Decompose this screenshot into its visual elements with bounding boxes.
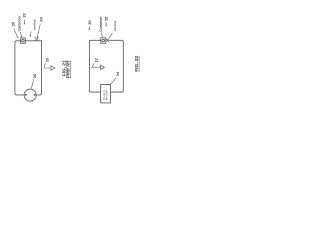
- arrowhead of hot line lead: [30, 35, 31, 37]
- splice X on hot line: [35, 37, 39, 41]
- svg-text:34: 34: [115, 71, 120, 76]
- lead line numeral 12 bend: [92, 63, 100, 67]
- svg-text:10: 10: [44, 58, 49, 62]
- svg-text:FIG. 22: FIG. 22: [134, 55, 140, 71]
- lead line numeral 34 -> module: [111, 78, 117, 85]
- arrowhead of 20 lead: [17, 36, 19, 38]
- load circle M1: [24, 89, 36, 101]
- lead line numeral 24 -> X: [37, 24, 40, 38]
- splice X right of box B2: [106, 39, 109, 42]
- svg-text:Module: Module: [104, 90, 108, 100]
- wire: left vertical conductor: [15, 42, 17, 95]
- switch box B1: [21, 38, 26, 43]
- lead line numeral 20 -> top wire: [14, 29, 18, 37]
- wire: right vertical conductor: [40, 42, 42, 95]
- svg-text:32: 32: [104, 16, 109, 21]
- lead arrow numeral 30 -> corner: [88, 27, 91, 30]
- lamp symbol in box B1: [22, 39, 24, 41]
- arrowhead of 22 lead: [24, 23, 25, 25]
- svg-text:12: 12: [93, 57, 98, 62]
- wire: top hot-line conductor: [15, 41, 42, 43]
- lead arrow numeral 32: [105, 22, 107, 26]
- wire: left vertical conductor: [89, 42, 91, 92]
- open arrowhead of assembly 10: [51, 66, 55, 71]
- switch box B2: [101, 38, 106, 43]
- svg-text:30: 30: [87, 20, 92, 24]
- wire: right vertical conductor: [122, 42, 124, 92]
- terminal dot left of load: [25, 94, 27, 96]
- svg-text:22: 22: [22, 12, 27, 17]
- arrowhead of 30 lead: [89, 29, 91, 31]
- svg-text:hot line: hot line: [113, 20, 117, 31]
- lead line Common -> box: [101, 32, 102, 37]
- open arrowhead of assembly 12: [100, 65, 104, 69]
- svg-text:Common: Common: [17, 16, 21, 31]
- wire: bottom conductor: [16, 94, 40, 96]
- wire: bottom conductor: [91, 91, 122, 93]
- lead line hot line -> wire: [29, 32, 32, 36]
- lead line hot line -> X: [109, 33, 112, 38]
- lead line Common -> box: [20, 32, 21, 36]
- wire: top hot-line conductor: [89, 40, 123, 42]
- FIG. 21 caption: [62, 60, 71, 78]
- svg-text:hot line: hot line: [32, 19, 36, 30]
- arrowhead of 32 lead: [105, 25, 106, 27]
- lead arrow numeral 22: [23, 20, 25, 24]
- svg-text:Common: Common: [99, 17, 103, 32]
- control module box: [101, 85, 111, 103]
- lead line numeral 26 -> load: [31, 79, 34, 89]
- terminal dot right of load: [34, 94, 36, 96]
- svg-text:20: 20: [11, 22, 16, 26]
- arrowhead of Common lead: [21, 36, 23, 38]
- lamp symbol in box B2: [102, 39, 104, 41]
- svg-text:24: 24: [39, 16, 44, 21]
- svg-text:26: 26: [32, 73, 37, 78]
- lead line numeral 10 bend: [44, 63, 51, 68]
- svg-text:Prior Art: Prior Art: [66, 60, 71, 78]
